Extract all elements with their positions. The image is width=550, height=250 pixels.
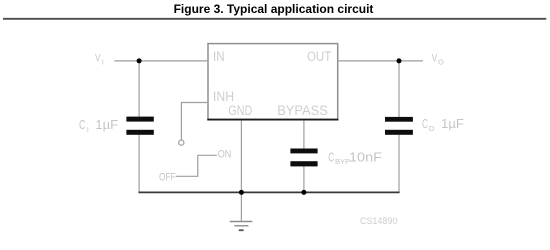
- svg-text:I: I: [87, 125, 89, 134]
- svg-text:C: C: [328, 150, 334, 164]
- svg-text:O: O: [438, 57, 444, 66]
- svg-text:O: O: [429, 124, 435, 133]
- svg-text:C: C: [422, 117, 428, 131]
- svg-text:ON: ON: [218, 148, 232, 160]
- svg-text:BYP: BYP: [335, 157, 350, 166]
- svg-text:I: I: [102, 57, 104, 66]
- svg-text:V: V: [95, 53, 101, 65]
- svg-text:1µF: 1µF: [441, 117, 464, 131]
- svg-text:1µF: 1µF: [95, 118, 118, 132]
- svg-text:V: V: [432, 53, 438, 65]
- svg-text:Figure 3. Typical application: Figure 3. Typical application circuit: [174, 2, 374, 16]
- svg-text:10nF: 10nF: [349, 150, 382, 164]
- svg-text:BYPASS: BYPASS: [277, 103, 328, 118]
- svg-text:GND: GND: [228, 103, 252, 118]
- svg-text:IN: IN: [213, 49, 225, 64]
- svg-text:OUT: OUT: [307, 49, 331, 64]
- svg-text:C: C: [79, 118, 86, 132]
- svg-text:CS14890: CS14890: [360, 216, 397, 226]
- svg-text:INH: INH: [213, 89, 234, 104]
- svg-text:OFF: OFF: [159, 172, 176, 184]
